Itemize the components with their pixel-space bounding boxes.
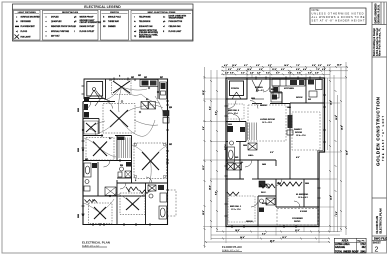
svg-text:LIN.: LIN. <box>240 162 244 164</box>
entry doors floor plan <box>252 80 264 99</box>
svg-text:e: e <box>46 26 47 28</box>
svg-text:FLOOD LIGHT: FLOOD LIGHT <box>169 31 183 33</box>
svg-text:11'-0": 11'-0" <box>272 69 277 71</box>
svg-text:14'-2": 14'-2" <box>330 100 333 105</box>
svg-text:8'-6": 8'-6" <box>296 69 300 71</box>
svg-text:6'-2": 6'-2" <box>281 69 285 71</box>
gfi labels left plan <box>78 75 172 218</box>
svg-text:ROOM: ROOM <box>295 132 302 134</box>
svg-text:7'-4": 7'-4" <box>288 71 292 74</box>
svg-text:13'-6": 13'-6" <box>203 210 205 215</box>
svg-text:RECESSED: RECESSED <box>21 21 32 23</box>
svg-text:TELEVISION: TELEVISION <box>139 21 151 23</box>
svg-text:220: 220 <box>169 107 172 109</box>
title block sheet number <box>373 241 382 253</box>
svg-text:M. BED RM.: M. BED RM. <box>296 194 309 196</box>
area table <box>334 238 366 253</box>
svg-text:11'-6": 11'-6" <box>295 230 300 232</box>
svg-text:dc: dc <box>163 16 165 18</box>
svg-text:S3: S3 <box>146 99 148 101</box>
svg-text:SHEET: SHEET <box>373 241 382 244</box>
svg-text:6'-4": 6'-4" <box>215 111 218 115</box>
svg-text:3050 SH: 3050 SH <box>260 105 267 107</box>
svg-text:2868: 2868 <box>251 98 255 100</box>
legend col: light fixtures <box>14 10 41 40</box>
svg-text:e: e <box>46 31 47 33</box>
dimension lines left <box>205 67 218 248</box>
svg-text:9'-2": 9'-2" <box>266 72 270 74</box>
svg-text:4'-8": 4'-8" <box>315 71 319 74</box>
svg-text:KITCHEN: KITCHEN <box>284 88 294 90</box>
stairs floor plan <box>246 123 256 142</box>
ceiling fan bed3 <box>120 193 145 215</box>
svg-text:CEILING FAN: CEILING FAN <box>169 25 182 28</box>
svg-text:GFI: GFI <box>169 144 172 146</box>
title block <box>372 2 387 253</box>
porch entry door swing left plan <box>95 91 110 107</box>
svg-text:8'-2": 8'-2" <box>210 106 212 110</box>
svg-text:3050 SH: 3050 SH <box>246 221 253 223</box>
svg-text:DRAWN: R.B.W.: DRAWN: R.B.W. <box>377 4 380 23</box>
ceiling dash living <box>248 105 286 141</box>
svg-text:8'-0 SGD: 8'-0 SGD <box>300 211 308 213</box>
svg-text:10'-4": 10'-4" <box>247 68 252 71</box>
ceiling fan den <box>86 138 114 161</box>
hall walls floor plan <box>258 92 282 166</box>
svg-text:5'-0": 5'-0" <box>270 152 274 154</box>
svg-text:16'-4": 16'-4" <box>341 125 344 130</box>
svg-text:PUSH BUTTON: PUSH BUTTON <box>169 21 183 23</box>
svg-text:12'-8": 12'-8" <box>331 195 333 200</box>
svg-text:DUPLEX: DUPLEX <box>51 16 59 18</box>
svg-text:9'-4": 9'-4" <box>202 126 205 130</box>
ceiling dash family <box>292 112 320 150</box>
svg-text:6'-2": 6'-2" <box>228 69 232 71</box>
kitchen counter left plan <box>140 80 167 100</box>
dimension numbers sides <box>202 90 349 243</box>
window ticks floor plan <box>225 77 327 229</box>
svg-text:BED RM. 2: BED RM. 2 <box>228 110 240 112</box>
svg-text:7'-2": 7'-2" <box>316 69 320 71</box>
svg-text:3050: 3050 <box>228 124 232 126</box>
svg-text:4'-6": 4'-6" <box>250 71 254 74</box>
wall note smudges floor plan <box>228 89 311 223</box>
closet rods zigzag left plan <box>85 187 150 203</box>
svg-text:e: e <box>46 36 47 38</box>
svg-text:3'-9": 3'-9" <box>257 72 261 74</box>
svg-text:SQ. FT.: SQ. FT. <box>357 241 365 243</box>
kitchen counters floor plan <box>272 79 305 98</box>
svg-text:PORCH: PORCH <box>231 88 239 90</box>
svg-text:FLUORESCENT: FLUORESCENT <box>21 26 36 28</box>
bath fixtures floor plan <box>227 126 275 212</box>
svg-text:SPECIAL PURPOSE: SPECIAL PURPOSE <box>51 30 70 33</box>
dimension ticks <box>204 66 349 247</box>
svg-text:5'-5": 5'-5" <box>297 72 301 74</box>
patio dash <box>277 209 318 226</box>
svg-text:52'-0": 52'-0" <box>347 150 349 155</box>
svg-text:TRANSFORMER: TRANSFORMER <box>169 17 184 20</box>
svg-text:RANGE OUTLET: RANGE OUTLET <box>80 25 96 28</box>
porch left plan <box>84 79 106 99</box>
svg-text:ALL WINDOWS & DOORS TO BE: ALL WINDOWS & DOORS TO BE <box>312 15 365 19</box>
svg-text:1712: 1712 <box>360 244 366 246</box>
svg-text:2868: 2868 <box>287 107 291 109</box>
svg-text:3'-2": 3'-2" <box>327 65 331 67</box>
svg-text:S3: S3 <box>109 138 111 140</box>
electrical plan label <box>82 241 110 248</box>
svg-text:GFI: GFI <box>144 77 147 79</box>
svg-text:e: e <box>46 21 47 23</box>
svg-text:3050: 3050 <box>78 148 80 152</box>
svg-text:WEATHER PROOF DUPLEX: WEATHER PROOF DUPLEX <box>51 25 77 28</box>
svg-text:2341: 2341 <box>360 250 366 253</box>
svg-text:2668: 2668 <box>243 145 247 147</box>
dimension lines top <box>221 67 348 74</box>
svg-text:S3: S3 <box>103 21 105 23</box>
floor plan label <box>222 245 242 252</box>
svg-text:44'-0": 44'-0" <box>337 64 342 67</box>
svg-text:4'-2": 4'-2" <box>224 64 228 67</box>
svg-text:12'-4": 12'-4" <box>232 64 237 67</box>
ceiling fan bed2 <box>89 203 113 224</box>
svg-text:REF: REF <box>271 89 274 91</box>
svg-text:THE EAST "A" LOFT: THE EAST "A" LOFT <box>382 115 385 161</box>
fireplace floor plan <box>287 115 293 135</box>
electrical legend table <box>13 4 194 41</box>
hall bath fixtures left plan <box>118 162 131 178</box>
svg-text:FLOOD: FLOOD <box>21 31 28 33</box>
legend col: switches <box>101 10 129 40</box>
room labels floor plan <box>224 87 309 223</box>
svg-text:NOTE:: NOTE: <box>312 8 320 12</box>
svg-text:3050: 3050 <box>78 214 80 218</box>
svg-text:2'-8": 2'-8" <box>225 72 229 74</box>
ceiling fan dining <box>112 80 132 95</box>
svg-text:DWG FILE: DWG FILE <box>374 237 387 241</box>
interior walls floor plan <box>226 78 325 227</box>
porch floor plan <box>226 78 247 99</box>
dimension extension lines <box>203 66 347 243</box>
svg-text:DW: DW <box>308 99 311 101</box>
svg-text:9'-8": 9'-8" <box>312 65 316 67</box>
switch wire arcs left plan <box>84 87 168 213</box>
ceiling fan master <box>134 143 167 179</box>
svg-text:TELEPHONE: TELEPHONE <box>139 16 151 18</box>
svg-text:SURFACE MOUNTED: SURFACE MOUNTED <box>21 15 41 18</box>
svg-text:10'-8": 10'-8" <box>235 230 240 232</box>
svg-text:DINING: DINING <box>255 87 263 89</box>
dimension numbers top <box>224 64 342 75</box>
svg-text:UNLESS OTHERWISE NOTED: UNLESS OTHERWISE NOTED <box>312 12 364 16</box>
svg-text:FAMILY: FAMILY <box>294 128 302 131</box>
svg-text:LIVING ROOM: LIVING ROOM <box>260 119 275 121</box>
svg-text:14'-4": 14'-4" <box>240 236 245 239</box>
legend col: misc electrical items <box>131 10 193 40</box>
ceiling dash bed2 <box>228 104 244 119</box>
svg-text:METER BASE: METER BASE <box>139 36 152 39</box>
svg-text:220 VOLT: 220 VOLT <box>51 36 60 38</box>
small fan bath <box>84 121 98 134</box>
svg-text:11'-2": 11'-2" <box>203 165 205 170</box>
electrical plan drawing <box>78 75 176 226</box>
svg-text:7'-5": 7'-5" <box>296 65 300 67</box>
svg-text:2668: 2668 <box>277 183 281 185</box>
outer walls left plan <box>83 79 168 225</box>
svg-text:SET AT 6'-8" HEADER HEIGHT: SET AT 6'-8" HEADER HEIGHT <box>312 18 365 22</box>
svg-text:SINGLE POLE: SINGLE POLE <box>108 16 121 18</box>
svg-text:12'-6": 12'-6" <box>203 90 205 95</box>
title block date cell text <box>373 3 380 24</box>
svg-text:EXHAUST FAN: EXHAUST FAN <box>139 25 153 28</box>
svg-text:13'-4 x 11'-6: 13'-4 x 11'-6 <box>296 135 306 137</box>
svg-text:2868: 2868 <box>305 183 309 185</box>
outlets small circles left plan <box>82 79 168 226</box>
svg-text:BATH: BATH <box>224 144 227 150</box>
master bath fixtures left plan <box>148 185 167 219</box>
svg-text:10'-6": 10'-6" <box>210 185 212 190</box>
interior walls left plan <box>83 79 168 225</box>
svg-text:ELECTRICAL PLAN: ELECTRICAL PLAN <box>379 208 383 233</box>
svg-text:6'-6": 6'-6" <box>322 69 326 71</box>
svg-text:COVERED: COVERED <box>292 218 303 220</box>
kitchen island floor plan <box>271 93 282 102</box>
svg-text:LIVING AREA: LIVING AREA <box>335 243 350 246</box>
window ticks left plan <box>82 78 170 227</box>
svg-text:BED RM. 1: BED RM. 1 <box>230 206 242 208</box>
svg-text:GOLDEN CONSTRUCTION: GOLDEN CONSTRUCTION <box>376 96 381 166</box>
svg-text:15'-2 x 13'-8: 15'-2 x 13'-8 <box>262 122 272 124</box>
svg-text:GFI: GFI <box>85 159 88 161</box>
door arcs left plan <box>83 102 152 197</box>
title block sheet title <box>375 208 383 233</box>
svg-text:FLOOR PLAN: FLOOR PLAN <box>222 245 242 249</box>
svg-text:THREE WAY: THREE WAY <box>108 20 120 23</box>
svg-text:AREA: AREA <box>342 240 349 243</box>
outer walls floor plan <box>226 78 325 227</box>
svg-text:GFI: GFI <box>138 75 141 77</box>
legend col: receptacles <box>43 10 102 40</box>
svg-text:4'-6": 4'-6" <box>296 156 300 159</box>
bathroom fixtures left plan <box>84 163 97 191</box>
svg-text:5'-8": 5'-8" <box>259 69 263 71</box>
door arcs floor plan <box>228 85 300 207</box>
svg-text:4'-4": 4'-4" <box>303 68 307 71</box>
utility appliances left plan <box>141 102 169 124</box>
stairs left plan <box>118 137 131 159</box>
svg-text:9'-2": 9'-2" <box>262 234 266 236</box>
dimension lines bottom <box>205 232 341 243</box>
svg-text:5'-9": 5'-9" <box>318 65 322 67</box>
svg-text:FLOOR OUTLET: FLOOR OUTLET <box>80 31 96 33</box>
svg-text:6'-7": 6'-7" <box>276 72 280 74</box>
svg-text:12'-2": 12'-2" <box>282 237 287 239</box>
ceiling fan living <box>103 104 135 134</box>
svg-text:3050: 3050 <box>78 108 80 112</box>
svg-text:11'-2 x 12'-0: 11'-2 x 12'-0 <box>231 209 241 211</box>
title block address cell text <box>373 27 381 56</box>
svg-text:DIMMER: DIMMER <box>108 26 116 28</box>
svg-text:9'-0": 9'-0" <box>308 72 312 74</box>
svg-text:9'-0 x 8'-2: 9'-0 x 8'-2 <box>256 90 264 92</box>
svg-text:3'-6": 3'-6" <box>237 69 241 71</box>
dimension lines right <box>328 62 347 235</box>
svg-text:9'-6": 9'-6" <box>336 211 338 215</box>
svg-text:ELECTRICAL PLAN: ELECTRICAL PLAN <box>82 241 110 245</box>
svg-text:QUADPLEX: QUADPLEX <box>51 20 62 23</box>
svg-text:2: 2 <box>375 246 379 253</box>
ceiling dash bed1 <box>228 196 255 222</box>
svg-text:5'-3": 5'-3" <box>268 65 272 67</box>
left wall fixtures cluster <box>84 97 89 118</box>
closet zigzags floor plan <box>227 182 302 196</box>
svg-text:CIRCUIT INTERRUPTER: CIRCUIT INTERRUPTER <box>80 22 102 24</box>
svg-text:FAN LIGHT: FAN LIGHT <box>21 35 32 38</box>
floor plan drawing <box>202 62 349 248</box>
svg-text:2468: 2468 <box>262 163 266 166</box>
svg-text:PATIO: PATIO <box>294 220 301 223</box>
title block project name <box>376 96 385 166</box>
svg-text:NOOK: NOOK <box>296 97 303 99</box>
linen closet left plan <box>105 187 116 196</box>
svg-text:GFI: GFI <box>131 77 134 79</box>
svg-text:44'-0": 44'-0" <box>270 240 275 243</box>
svg-text:ELECTRICAL LEGEND: ELECTRICAL LEGEND <box>84 5 121 9</box>
svg-text:HALL: HALL <box>248 154 254 157</box>
svg-text:FLOOR PLAN: FLOOR PLAN <box>375 216 379 234</box>
svg-text:9'-8": 9'-8" <box>216 191 218 195</box>
svg-text:11'-0 x 10'-4: 11'-0 x 10'-4 <box>228 113 238 115</box>
svg-text:5'-2": 5'-2" <box>241 72 245 74</box>
nook items floor plan <box>308 80 322 98</box>
svg-text:GARAGE: GARAGE <box>335 246 346 249</box>
svg-text:6'-1": 6'-1" <box>244 65 248 67</box>
svg-text:New Port Richey, FL: New Port Richey, FL <box>378 27 381 56</box>
svg-text:TOTAL UNDER ROOF: TOTAL UNDER ROOF <box>335 250 359 253</box>
note box <box>310 8 366 25</box>
svg-text:10'-0": 10'-0" <box>336 115 338 120</box>
svg-text:13'-0 x 14'-2: 13'-0 x 14'-2 <box>298 197 308 199</box>
svg-text:14'-6": 14'-6" <box>284 64 289 67</box>
title block dwg file band <box>374 237 387 241</box>
svg-text:BATH: BATH <box>262 202 268 205</box>
svg-text:WATER PROOF: WATER PROOF <box>80 15 95 18</box>
svg-text:e: e <box>46 16 47 18</box>
svg-text:8'-0": 8'-0" <box>256 65 260 67</box>
svg-text:8'-8": 8'-8" <box>230 72 234 74</box>
svg-text:W.I.C.: W.I.C. <box>261 192 267 194</box>
rear porch dashes left plan <box>168 190 177 216</box>
svg-text:(CEILING MOUNTED): (CEILING MOUNTED) <box>139 32 158 34</box>
